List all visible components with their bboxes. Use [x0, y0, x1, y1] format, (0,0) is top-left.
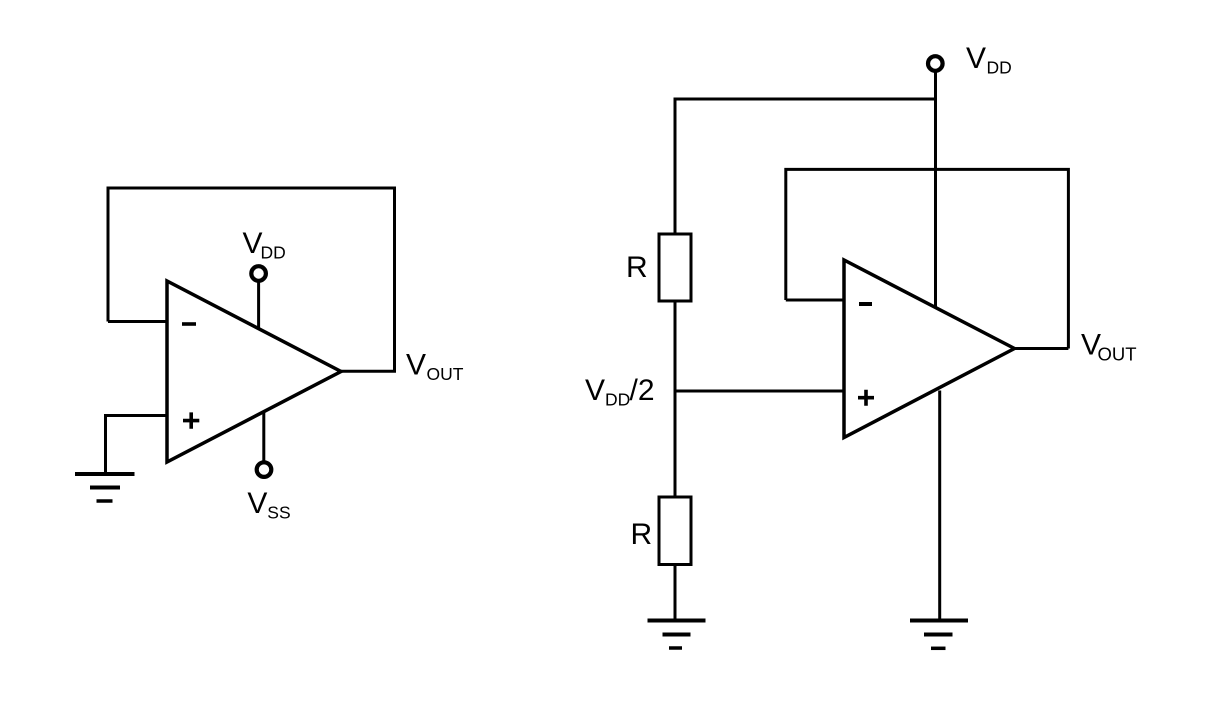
svg-text:V: V — [247, 487, 267, 520]
svg-text:/2: /2 — [630, 374, 655, 407]
svg-text:V: V — [585, 374, 605, 407]
svg-text:V: V — [966, 42, 986, 75]
svg-text:OUT: OUT — [1098, 344, 1137, 365]
svg-text:R: R — [626, 251, 648, 284]
svg-text:V: V — [243, 227, 263, 260]
svg-text:DD: DD — [261, 243, 286, 263]
svg-text:SS: SS — [267, 503, 290, 523]
svg-text:V: V — [406, 349, 426, 382]
svg-text:DD: DD — [987, 58, 1012, 78]
svg-text:DD: DD — [605, 390, 630, 410]
svg-text:OUT: OUT — [427, 364, 464, 384]
svg-text:R: R — [631, 518, 653, 551]
